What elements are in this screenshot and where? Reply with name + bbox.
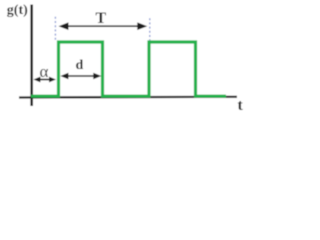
period arrow T (double-headed): [59, 22, 148, 30]
x-axis (t axis): [19, 96, 237, 99]
svg-text:T: T: [96, 10, 107, 27]
pulse width arrow d (double-headed): [60, 73, 101, 79]
svg-text:d: d: [76, 58, 84, 73]
y-axis g(t): [30, 5, 33, 107]
alpha offset arrow (double-headed): [33, 77, 56, 83]
dashed guide line at first rising edge: [54, 17, 56, 41]
svg-text:α: α: [40, 62, 49, 81]
dashed guide line at second rising edge: [149, 18, 151, 43]
svg-text:t: t: [238, 97, 244, 114]
green pulse waveform g(t): [31, 42, 226, 96]
svg-text:g(t): g(t): [7, 3, 28, 18]
